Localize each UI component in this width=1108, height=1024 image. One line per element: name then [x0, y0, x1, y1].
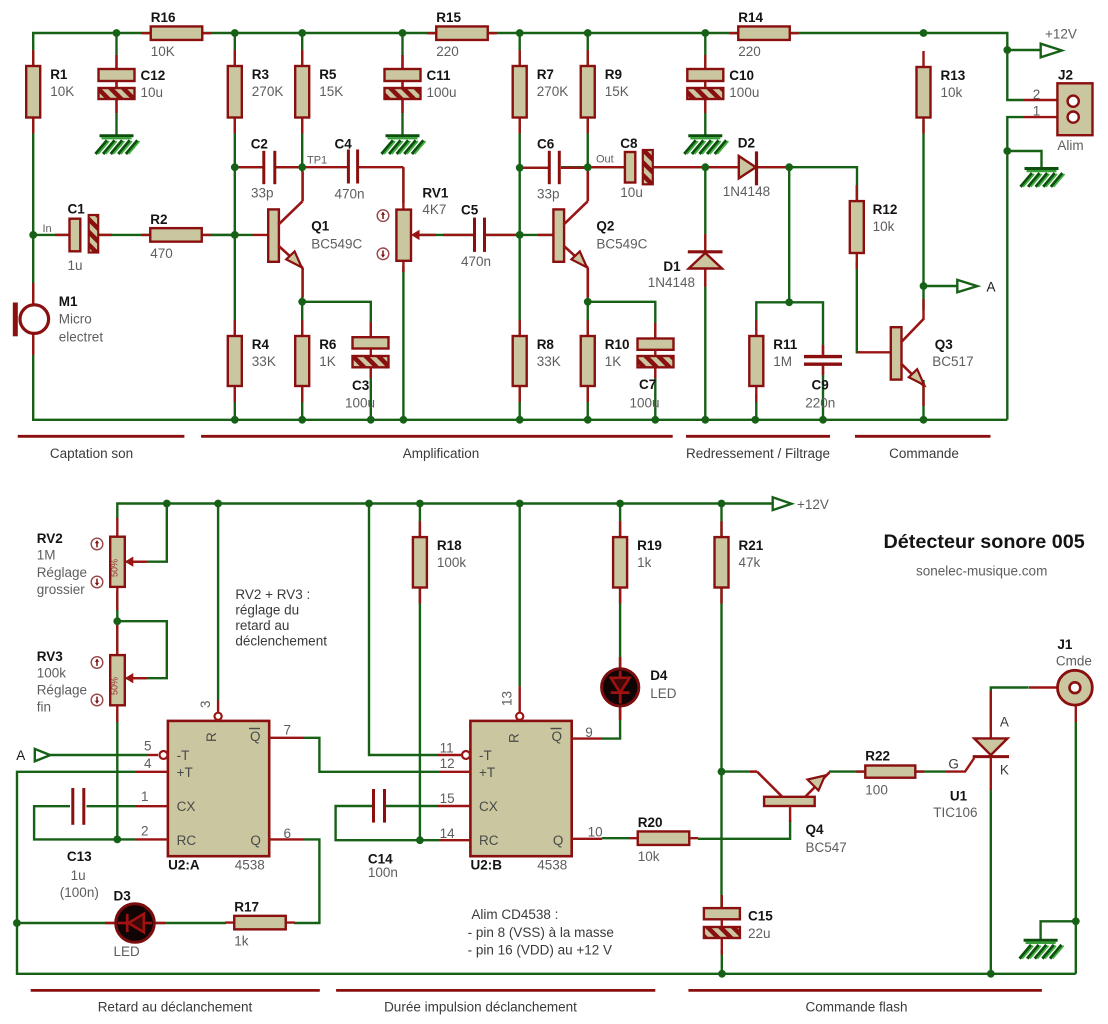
svg-text:R22: R22 — [865, 749, 890, 764]
wire R22 to gate — [916, 770, 947, 772]
LED D4 — [619, 657, 622, 671]
junction — [231, 29, 239, 37]
svg-text:5: 5 — [144, 739, 152, 754]
svg-text:100k: 100k — [437, 555, 467, 570]
junction — [231, 231, 239, 239]
wire pin3 branch — [217, 504, 219, 701]
svg-text:270K: 270K — [252, 84, 284, 99]
svg-text:G: G — [948, 757, 959, 772]
svg-text:RC: RC — [177, 833, 197, 848]
resistor R16 — [142, 32, 212, 34]
junction — [1072, 917, 1080, 925]
microphone M1 — [32, 283, 34, 305]
resistor R17 — [225, 921, 295, 923]
LED D3 — [105, 922, 117, 924]
U2:B pin 14 — [439, 839, 470, 841]
svg-text:10k: 10k — [941, 85, 963, 100]
wire Q3 emitter down — [922, 380, 924, 420]
power +12V arrow top right — [1041, 44, 1062, 58]
wire R21/C15 column — [720, 504, 722, 911]
svg-text:1N4148: 1N4148 — [723, 184, 770, 199]
wire D4 to pin9 — [602, 705, 620, 739]
svg-text:1: 1 — [1033, 104, 1041, 119]
svg-text:220: 220 — [738, 44, 761, 59]
svg-text:22u: 22u — [748, 926, 771, 941]
wire R20 to Q4 base — [698, 820, 790, 839]
junction — [416, 836, 424, 844]
svg-text:Captation son: Captation son — [50, 446, 133, 461]
svg-text:Q: Q — [552, 729, 563, 744]
svg-text:R3: R3 — [252, 67, 270, 82]
wire D3 row — [17, 922, 115, 924]
svg-text:CX: CX — [479, 799, 498, 814]
wire RV2 wiper to rail — [126, 504, 167, 562]
wire R5/Q1 column — [301, 33, 303, 172]
capacitor C8 — [588, 166, 625, 168]
RV2 up arrow — [91, 538, 103, 550]
capacitor C12 — [115, 55, 117, 113]
node A arrow — [957, 280, 977, 292]
wire Q2 emitter to C7 — [588, 302, 656, 341]
svg-text:In: In — [43, 223, 52, 235]
svg-text:grossier: grossier — [37, 582, 86, 597]
junction — [214, 500, 222, 508]
resistor R22 — [856, 770, 924, 772]
U2:B pin 10 — [572, 838, 602, 840]
svg-text:100u: 100u — [427, 85, 457, 100]
section line Retard au declanchement — [31, 989, 320, 992]
wire R17 to pin6 column — [294, 839, 319, 923]
svg-text:C5: C5 — [461, 203, 479, 218]
wire R9/Q2 column — [587, 33, 589, 172]
wire Q2 emitter column — [587, 297, 589, 420]
svg-text:R17: R17 — [234, 900, 259, 915]
svg-text:2: 2 — [1033, 87, 1041, 102]
svg-text:15: 15 — [440, 791, 455, 806]
svg-text:Q2: Q2 — [596, 218, 614, 233]
svg-text:déclenchement: déclenchement — [235, 634, 327, 649]
svg-text:33p: 33p — [251, 186, 274, 201]
svg-text:A: A — [16, 748, 25, 763]
U2:A pin 6 — [269, 838, 304, 840]
IC U2:A — [168, 721, 269, 856]
wire C2 TP1 C4 node — [235, 166, 302, 168]
resistor R2 — [141, 234, 211, 236]
svg-text:Alim CD4538 :: Alim CD4538 : — [471, 907, 558, 922]
svg-text:RV2 + RV3 :: RV2 + RV3 : — [235, 587, 310, 602]
wire C15 bottom — [721, 950, 723, 974]
svg-text:Q4: Q4 — [806, 822, 825, 837]
section line Captation son — [18, 435, 185, 438]
resistor R9 — [587, 50, 589, 134]
wire R2 to Q1 base — [210, 234, 235, 236]
svg-text:15K: 15K — [605, 84, 629, 99]
svg-text:12: 12 — [440, 756, 455, 771]
svg-text:4538: 4538 — [235, 857, 265, 872]
junction — [416, 500, 424, 508]
svg-text:4: 4 — [144, 756, 152, 771]
svg-text:BC549C: BC549C — [311, 236, 362, 251]
U2:B pin 12 — [439, 771, 470, 773]
junction — [516, 29, 524, 37]
wire C12 branch — [115, 33, 117, 135]
svg-text:+T: +T — [177, 765, 193, 780]
svg-text:1: 1 — [141, 789, 149, 804]
RV1 down arrow — [377, 248, 389, 260]
svg-text:R19: R19 — [637, 538, 662, 553]
resistor R7 — [519, 50, 521, 134]
svg-text:BC517: BC517 — [932, 354, 973, 369]
potentiometer RV2 — [116, 518, 118, 540]
wire J2 ground branch — [1007, 151, 1041, 167]
svg-text:10k: 10k — [873, 219, 895, 234]
section line Duree impulsion declanchement — [336, 989, 655, 992]
svg-text:14: 14 — [440, 826, 456, 841]
wire C9 bottom — [822, 364, 824, 420]
svg-text:Q1: Q1 — [311, 218, 330, 233]
svg-text:K: K — [1000, 763, 1009, 778]
svg-text:Durée impulsion déclanchement: Durée impulsion déclanchement — [384, 1000, 577, 1015]
connector J1 — [1029, 686, 1058, 688]
svg-text:C7: C7 — [639, 377, 656, 392]
wire C7 bottom — [654, 364, 656, 420]
wire Q1 emitter column — [301, 297, 303, 420]
junction — [516, 231, 524, 239]
RV3 up arrow — [91, 657, 103, 669]
svg-text:Alim: Alim — [1057, 138, 1083, 153]
resistor R4 — [234, 320, 236, 402]
wire U1 cathode to rail — [990, 788, 992, 974]
junction — [1003, 46, 1011, 54]
svg-text:R8: R8 — [537, 337, 555, 352]
junction — [298, 298, 306, 306]
junction — [920, 282, 928, 290]
svg-text:U2:B: U2:B — [471, 857, 503, 872]
wire RV1 bottom — [402, 266, 404, 420]
diode D2 — [705, 166, 789, 168]
svg-text:10u: 10u — [141, 85, 164, 100]
svg-text:33K: 33K — [252, 354, 276, 369]
capacitor C1 — [55, 234, 70, 236]
potentiometer RV1 — [402, 167, 404, 212]
svg-text:R9: R9 — [605, 67, 622, 82]
wire U1 anode to J1 — [991, 688, 1029, 731]
junction — [701, 416, 709, 424]
wire pin4 +T to ground column — [17, 772, 1076, 974]
svg-text:270K: 270K — [537, 84, 569, 99]
svg-text:2: 2 — [141, 824, 149, 839]
svg-text:+12V: +12V — [1045, 27, 1077, 42]
wire node A branch — [924, 285, 958, 287]
svg-text:C11: C11 — [427, 68, 452, 83]
resistor R5 — [301, 50, 303, 134]
wire C10 branch — [704, 33, 706, 135]
transistor Q4 — [764, 797, 815, 806]
junction — [13, 919, 21, 927]
diode D1 — [704, 234, 706, 252]
svg-text:C3: C3 — [352, 378, 370, 393]
svg-text:Commande flash: Commande flash — [805, 1000, 907, 1015]
svg-text:9: 9 — [585, 725, 593, 740]
U2:B pin 13 — [519, 686, 521, 712]
svg-text:D3: D3 — [114, 889, 132, 904]
RV3 down arrow — [91, 694, 103, 706]
resistor R1 — [32, 50, 34, 134]
svg-text:1u: 1u — [71, 868, 86, 883]
svg-text:470n: 470n — [461, 254, 491, 269]
svg-text:R: R — [507, 733, 522, 743]
svg-text:R14: R14 — [738, 10, 763, 25]
wire R19 to D4 — [619, 504, 621, 671]
svg-text:CX: CX — [177, 799, 196, 814]
svg-text:7: 7 — [284, 723, 292, 738]
svg-text:- pin 16 (VDD) au +12 V: - pin 16 (VDD) au +12 V — [468, 943, 612, 958]
ground at J2 — [1021, 169, 1065, 187]
svg-text:-T: -T — [479, 748, 492, 763]
svg-text:3: 3 — [198, 700, 213, 708]
svg-text:220: 220 — [436, 44, 459, 59]
junction — [584, 29, 592, 37]
junction — [516, 416, 524, 424]
junction — [584, 163, 592, 171]
svg-text:R5: R5 — [319, 67, 337, 82]
resistor R15 — [427, 32, 497, 34]
wire +12V arrow branch top right — [1007, 49, 1040, 51]
svg-text:C2: C2 — [251, 137, 268, 152]
svg-text:1M: 1M — [37, 547, 56, 562]
svg-text:50%: 50% — [109, 677, 119, 695]
svg-text:BC547: BC547 — [806, 840, 847, 855]
wire pin10 to R20 — [602, 837, 630, 839]
resistor R12 — [856, 185, 858, 269]
connector J2 — [1024, 99, 1070, 101]
resistor R8 — [519, 320, 521, 402]
svg-text:Micro: Micro — [59, 312, 92, 327]
svg-text:33K: 33K — [537, 354, 561, 369]
svg-text:100u: 100u — [630, 395, 660, 410]
svg-text:11: 11 — [440, 740, 454, 755]
U2:A pin 2 — [135, 838, 168, 840]
junction — [113, 617, 121, 625]
svg-text:C9: C9 — [812, 378, 829, 393]
junction — [113, 836, 121, 844]
svg-text:100u: 100u — [345, 395, 375, 410]
power +12V arrow lower — [773, 497, 792, 510]
svg-text:Out: Out — [596, 154, 614, 166]
wire J1 down column — [1075, 722, 1077, 974]
svg-text:10K: 10K — [151, 44, 175, 59]
junction — [298, 163, 306, 171]
U2:B pin 15 — [438, 805, 470, 807]
junction — [718, 970, 726, 978]
svg-text:+T: +T — [479, 765, 495, 780]
wire +12V top rail — [33, 33, 1023, 100]
wire Q1 emitter to C3 — [302, 302, 371, 340]
junction — [584, 298, 592, 306]
capacitor C5 — [443, 234, 473, 236]
svg-text:J1: J1 — [1057, 637, 1073, 652]
ground at J1 — [1020, 940, 1064, 958]
svg-text:6: 6 — [284, 826, 292, 841]
svg-text:1N4148: 1N4148 — [648, 275, 695, 290]
wire D2 node down to R11/C9 bracket — [788, 167, 790, 302]
svg-text:Q: Q — [250, 729, 261, 744]
junction — [298, 29, 306, 37]
svg-text:Réglage: Réglage — [37, 683, 87, 698]
svg-text:TP1: TP1 — [307, 155, 327, 167]
svg-text:Réglage: Réglage — [37, 565, 87, 580]
section line Amplification — [201, 435, 673, 438]
wire C11 branch — [401, 33, 403, 135]
wire R18 column — [419, 504, 421, 841]
svg-text:BC549C: BC549C — [596, 236, 647, 251]
svg-text:R4: R4 — [252, 337, 270, 352]
svg-text:R21: R21 — [739, 538, 764, 553]
svg-text:R7: R7 — [537, 67, 554, 82]
svg-text:Q3: Q3 — [935, 337, 954, 352]
wire R1/M1 left branch — [33, 45, 1007, 420]
wire base node Q1 — [33, 234, 253, 236]
junction — [298, 416, 306, 424]
svg-text:+12V: +12V — [797, 497, 829, 512]
capacitor C15 — [721, 895, 723, 955]
transistor Q3 — [891, 327, 902, 379]
wire RV3 wiper bracket — [117, 621, 167, 678]
svg-text:100u: 100u — [729, 85, 759, 100]
svg-text:Q: Q — [250, 833, 261, 848]
svg-text:C1: C1 — [68, 202, 86, 217]
junction — [651, 416, 659, 424]
svg-text:R: R — [204, 732, 219, 742]
svg-text:U1: U1 — [950, 789, 968, 804]
wire pin13 branch — [519, 504, 521, 687]
svg-text:(100n): (100n) — [60, 885, 99, 900]
RV2 down arrow — [91, 576, 103, 588]
capacitor C9 — [822, 345, 824, 357]
svg-text:C10: C10 — [729, 68, 754, 83]
svg-text:R2: R2 — [150, 212, 167, 227]
section line Commande — [855, 435, 991, 438]
wire C13 right to CX — [87, 805, 136, 807]
svg-text:Retard au déclanchement: Retard au déclanchement — [98, 1000, 253, 1015]
capacitor C2 — [235, 166, 263, 168]
wire RV1 wiper to C5 — [420, 234, 474, 236]
wire R11 bottom — [755, 394, 757, 420]
svg-text:RC: RC — [479, 833, 499, 848]
svg-text:M1: M1 — [59, 294, 78, 309]
RV1 up arrow — [377, 210, 389, 222]
svg-text:220n: 220n — [805, 395, 835, 410]
svg-text:LED: LED — [650, 686, 677, 701]
svg-text:C13: C13 — [67, 849, 92, 864]
wire C4 to RV1 — [402, 167, 404, 203]
svg-text:R12: R12 — [873, 202, 898, 217]
U2:A pin 5 — [148, 754, 158, 756]
resistor R11 — [755, 320, 757, 402]
resistor R13 — [922, 51, 924, 134]
svg-text:15K: 15K — [319, 84, 343, 99]
svg-text:1k: 1k — [234, 934, 249, 949]
svg-text:10: 10 — [588, 825, 603, 840]
svg-text:LED: LED — [114, 944, 141, 959]
ground — [96, 136, 140, 154]
wire Q4 emitter to R22 — [829, 770, 865, 772]
junction — [718, 500, 726, 508]
junction — [113, 29, 121, 37]
capacitor C7 — [654, 323, 656, 378]
junction — [701, 29, 709, 37]
svg-text:1K: 1K — [319, 354, 336, 369]
wire pin11 to rail — [369, 504, 438, 756]
junction — [367, 416, 375, 424]
svg-text:R13: R13 — [941, 68, 966, 83]
svg-text:- pin 8 (VSS) à la masse: - pin 8 (VSS) à la masse — [468, 925, 614, 940]
capacitor C4 — [302, 166, 348, 168]
junction — [616, 500, 624, 508]
junction — [701, 163, 709, 171]
svg-text:100: 100 — [865, 783, 888, 798]
svg-text:C12: C12 — [141, 68, 166, 83]
svg-text:J2: J2 — [1058, 68, 1073, 83]
svg-text:1M: 1M — [773, 354, 792, 369]
wire +12V lower rail — [117, 504, 772, 521]
wire R12 to Q3 base — [857, 262, 860, 352]
capacitor C14 — [374, 788, 383, 824]
thyristor U1 — [990, 691, 992, 740]
junction — [516, 500, 524, 508]
wire Q4 collector branch — [722, 770, 751, 772]
svg-text:RV2: RV2 — [37, 531, 63, 546]
U2:A pin 4 — [135, 771, 168, 773]
transistor Q1 — [253, 234, 271, 236]
wire R13 column to Q3 — [922, 120, 924, 310]
wire C14 bracket — [336, 806, 439, 840]
wire node A to pin5 — [50, 754, 148, 756]
section line Redressement / Filtrage — [686, 435, 830, 438]
wire D1 column — [704, 167, 706, 420]
svg-text:TIC106: TIC106 — [933, 805, 977, 820]
svg-text:réglage du: réglage du — [235, 603, 299, 618]
wire C14 right to CX — [386, 805, 438, 807]
U2:B pin 11 — [438, 754, 462, 756]
svg-text:C8: C8 — [620, 136, 638, 151]
svg-text:10K: 10K — [50, 84, 74, 99]
svg-text:1u: 1u — [68, 258, 83, 273]
capacitor C6 — [520, 167, 548, 169]
wire R11 C9 bracket — [756, 302, 823, 356]
svg-text:sonelec-musique.com: sonelec-musique.com — [916, 564, 1047, 579]
svg-text:C6: C6 — [537, 137, 555, 152]
svg-text:RV3: RV3 — [37, 649, 64, 664]
junction — [1003, 147, 1011, 155]
svg-text:R10: R10 — [605, 337, 630, 352]
svg-text:R11: R11 — [773, 337, 798, 352]
junction — [987, 970, 995, 978]
wire C13 bracket — [34, 806, 135, 839]
svg-text:D1: D1 — [663, 259, 681, 274]
svg-text:RV1: RV1 — [422, 186, 449, 201]
svg-text:Détecteur sonore 005: Détecteur sonore 005 — [884, 531, 1085, 553]
resistor R21 — [720, 521, 722, 603]
junction — [516, 164, 524, 172]
svg-text:Amplification: Amplification — [403, 446, 480, 461]
potentiometer RV3 — [116, 621, 118, 658]
U2:A pin 3 — [217, 700, 219, 713]
svg-text:10k: 10k — [638, 849, 660, 864]
svg-text:D4: D4 — [650, 668, 668, 683]
wire J1 ground branch — [1041, 921, 1076, 939]
svg-text:1K: 1K — [605, 354, 622, 369]
